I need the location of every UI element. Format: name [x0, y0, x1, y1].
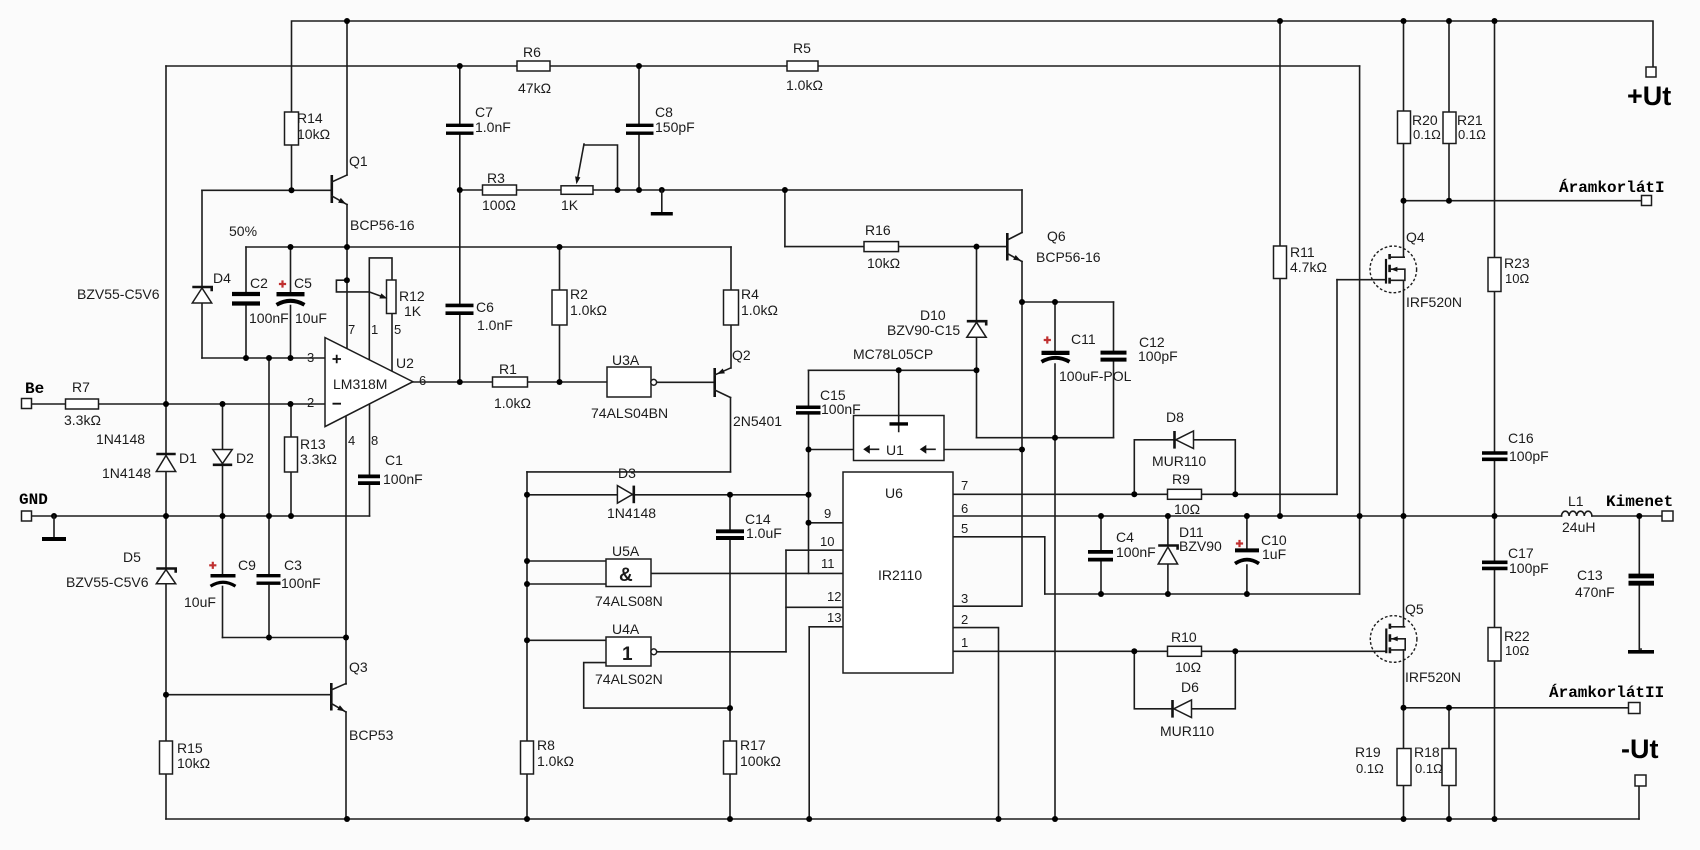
- svg-text:10kΩ: 10kΩ: [867, 255, 900, 271]
- junction: [457, 187, 463, 193]
- wire pot 1K loop: [584, 145, 618, 190]
- svg-text:0.1Ω: 0.1Ω: [1356, 761, 1384, 776]
- capacitor C16: [1482, 430, 1549, 464]
- junction: [344, 816, 350, 822]
- svg-text:3.3kΩ: 3.3kΩ: [300, 451, 337, 467]
- wire R13 column: [290, 404, 292, 516]
- svg-text:ÁramkorlátII: ÁramkorlátII: [1549, 683, 1664, 702]
- wire R2 column: [559, 247, 561, 382]
- junction: [1098, 591, 1104, 597]
- wire bottom rail: [166, 818, 1639, 820]
- wire Q6 emitter col: [953, 262, 1022, 607]
- svg-text:C4: C4: [1116, 529, 1134, 545]
- mosfet Q4: [1370, 229, 1462, 310]
- diode D2: [102, 450, 254, 482]
- wire Q5 source col: [1403, 650, 1405, 819]
- junction: [1052, 816, 1058, 822]
- svg-text:R3: R3: [487, 170, 505, 186]
- junction: [727, 816, 733, 822]
- svg-text:10kΩ: 10kΩ: [177, 755, 210, 771]
- junction: [1131, 648, 1137, 654]
- wire C11 C12 top line: [1022, 301, 1114, 303]
- svg-text:R14: R14: [297, 110, 323, 126]
- svg-text:D5: D5: [123, 549, 141, 565]
- svg-text:Q5: Q5: [1405, 601, 1424, 617]
- svg-text:100nF: 100nF: [821, 401, 861, 417]
- junction: [524, 816, 530, 822]
- wire C11 col: [1054, 302, 1056, 819]
- terminal AramkorlatII: [1629, 703, 1641, 714]
- svg-text:R8: R8: [537, 737, 555, 753]
- svg-text:7: 7: [348, 322, 355, 337]
- wire U1 in stub: [898, 370, 900, 422]
- wire U4A out line: [657, 651, 786, 653]
- svg-text:R10: R10: [1171, 629, 1197, 645]
- junction: [1401, 816, 1407, 822]
- svg-text:MUR110: MUR110: [1160, 723, 1214, 739]
- wire C13 col: [1638, 516, 1640, 651]
- svg-text:74ALS02N: 74ALS02N: [595, 671, 663, 687]
- junction: [1401, 198, 1407, 204]
- wire U4A in2 jog: [584, 663, 730, 709]
- wire C2 column: [245, 247, 247, 358]
- resistor R22: [1488, 628, 1530, 662]
- and gate U5A: [595, 543, 663, 609]
- svg-text:U3A: U3A: [612, 352, 640, 368]
- wire U5A in2: [527, 583, 606, 585]
- junction: [163, 401, 169, 407]
- svg-text:1N4148: 1N4148: [102, 465, 151, 481]
- junction: [1052, 435, 1058, 441]
- wire vs link line y437: [977, 437, 1114, 439]
- svg-text:100nF: 100nF: [249, 310, 289, 326]
- svg-text:100pF: 100pF: [1509, 560, 1549, 576]
- wire Q3 emitter col: [345, 712, 347, 819]
- wire left rail upper: [165, 66, 167, 404]
- resistor R8: [521, 737, 574, 774]
- capacitor C15: [796, 387, 861, 417]
- junction: [288, 355, 294, 361]
- wire Q1 emitter col pin7: [346, 205, 348, 349]
- wire R18 col: [1448, 708, 1450, 819]
- wire Q4 gate stub: [1337, 279, 1386, 281]
- junction: [1019, 299, 1025, 305]
- svg-text:0.1Ω: 0.1Ω: [1458, 127, 1486, 142]
- svg-text:D6: D6: [1181, 679, 1199, 695]
- wire Q4 source col: [1403, 280, 1405, 516]
- svg-text:IRF520N: IRF520N: [1405, 669, 1461, 685]
- terminal AramkorlatI: [1642, 196, 1652, 206]
- op-amp U2: [307, 322, 426, 448]
- nor gate U4A: [595, 621, 663, 687]
- junction: [51, 513, 57, 519]
- resistor R2: [552, 286, 607, 325]
- wire C9 bottom col: [222, 587, 224, 638]
- svg-text:8: 8: [371, 433, 378, 448]
- capacitor C4: [1088, 529, 1156, 560]
- svg-text:C3: C3: [284, 557, 302, 573]
- junction: [1277, 18, 1283, 24]
- junction: [1131, 491, 1137, 497]
- junction: [806, 447, 812, 453]
- wire U1 out line right: [944, 449, 1022, 451]
- svg-text:R20: R20: [1412, 112, 1438, 128]
- wire C7 C6 column: [459, 66, 461, 382]
- junction: [344, 244, 350, 250]
- junction: [659, 187, 665, 193]
- svg-text:R7: R7: [72, 379, 90, 395]
- junction: [806, 816, 812, 822]
- junction: [974, 367, 980, 373]
- wire Q4 gate riser: [1336, 280, 1338, 495]
- svg-text:R22: R22: [1504, 628, 1530, 644]
- svg-text:1.0uF: 1.0uF: [746, 525, 782, 541]
- wire Q3 base line: [166, 694, 331, 696]
- resistor R9: [1168, 471, 1202, 517]
- junction: [896, 367, 902, 373]
- wire VS line: [1045, 593, 1360, 595]
- svg-text:1K: 1K: [561, 197, 579, 213]
- junction: [1052, 299, 1058, 305]
- svg-text:10kΩ: 10kΩ: [297, 126, 330, 142]
- svg-text:100pF: 100pF: [1509, 448, 1549, 464]
- wire U5A out pin11: [651, 572, 843, 574]
- svg-text:5: 5: [961, 521, 968, 536]
- wire x527 divider col: [526, 472, 528, 819]
- svg-text:L1: L1: [1568, 493, 1584, 509]
- svg-text:9: 9: [824, 506, 831, 521]
- wire pin4 column: [345, 416, 347, 637]
- terminal -Ut: [1635, 775, 1646, 786]
- junction: [524, 558, 530, 564]
- wire D4 column top: [201, 190, 203, 287]
- capacitor C1: [358, 452, 423, 487]
- resistor R3: [482, 170, 517, 213]
- junction: [1232, 648, 1238, 654]
- svg-text:BZV90: BZV90: [1179, 538, 1222, 554]
- svg-text:D8: D8: [1166, 409, 1184, 425]
- junction: [636, 63, 642, 69]
- svg-text:12: 12: [827, 589, 841, 604]
- junction: [615, 187, 621, 193]
- wire D10 col bottom: [976, 337, 978, 437]
- svg-text:10Ω: 10Ω: [1174, 501, 1200, 517]
- wire left rail D1-GND: [165, 472, 167, 517]
- resistor R19: [1355, 744, 1411, 786]
- wire Q1 collector col: [346, 21, 348, 175]
- junction: [636, 187, 642, 193]
- svg-text:4.7kΩ: 4.7kΩ: [1290, 259, 1327, 275]
- wire D4 column bottom: [201, 303, 203, 358]
- wire LO line pin1: [953, 650, 1386, 652]
- potentiometer R12: [369, 280, 425, 319]
- svg-text:C17: C17: [1508, 545, 1534, 561]
- resistor R18: [1414, 744, 1456, 786]
- svg-text:13: 13: [827, 610, 841, 625]
- svg-text:U5A: U5A: [612, 543, 640, 559]
- svg-text:3.3kΩ: 3.3kΩ: [64, 412, 101, 428]
- resistor R13: [285, 436, 337, 472]
- svg-text:C1: C1: [385, 452, 403, 468]
- capacitor C13: [1575, 567, 1654, 600]
- junction: [1401, 18, 1407, 24]
- ground at pot: [651, 190, 673, 214]
- capacitor C8: [626, 104, 695, 135]
- wire pin13 stub: [809, 626, 843, 628]
- svg-text:D3: D3: [618, 465, 636, 481]
- junction: [163, 692, 169, 698]
- wire left rail D1 seg: [165, 404, 167, 454]
- wire pin5 jog: [953, 537, 1045, 594]
- svg-text:1uF: 1uF: [1262, 546, 1286, 562]
- junction: [1401, 705, 1407, 711]
- wire Q1 base line: [202, 189, 332, 191]
- wire pin10 stub: [786, 549, 843, 551]
- wire R12 wiper hook: [336, 280, 369, 292]
- wire left rail GND-D5: [165, 516, 167, 569]
- transistor Q6: [1007, 228, 1101, 265]
- svg-text:Q4: Q4: [1406, 229, 1425, 245]
- svg-text:R19: R19: [1355, 744, 1381, 760]
- svg-text:0.1Ω: 0.1Ω: [1413, 127, 1441, 142]
- junction: [806, 520, 812, 526]
- svg-text:Q6: Q6: [1047, 228, 1066, 244]
- svg-text:R9: R9: [1172, 471, 1190, 487]
- wire pin4 to Q3 collector: [345, 638, 347, 685]
- junction: [1244, 513, 1250, 519]
- ground at GND: [42, 516, 66, 539]
- resistor R11: [1274, 244, 1327, 279]
- junction: [288, 244, 294, 250]
- svg-text:100pF: 100pF: [1138, 348, 1178, 364]
- svg-text:R2: R2: [570, 286, 588, 302]
- wire Q5 drain col: [1403, 516, 1405, 627]
- junction: [782, 187, 788, 193]
- resistor R4: [724, 286, 778, 325]
- diode D8: [1152, 409, 1206, 469]
- ground at C13: [1628, 649, 1654, 652]
- svg-text:1.0kΩ: 1.0kΩ: [741, 302, 778, 318]
- svg-text:ÁramkorlátI: ÁramkorlátI: [1559, 178, 1665, 197]
- svg-text:U2: U2: [396, 355, 414, 371]
- svg-text:47kΩ: 47kΩ: [518, 80, 551, 96]
- wire C10 col: [1246, 516, 1248, 594]
- junction: [524, 637, 530, 643]
- capacitor C14: [716, 511, 782, 541]
- wire aramkorlat1 line: [1404, 200, 1642, 202]
- wire 50pct line y247: [246, 246, 731, 248]
- wire D6 loop: [1134, 651, 1235, 709]
- terminal GND: [22, 511, 32, 521]
- junction: [1492, 513, 1498, 519]
- svg-text:R12: R12: [399, 288, 425, 304]
- wire C3 column: [268, 358, 270, 638]
- capacitor C2: [232, 275, 289, 326]
- wire C16 C17 col: [1494, 461, 1496, 819]
- capacitor C17: [1482, 545, 1549, 576]
- gate driver U6: [843, 472, 953, 673]
- diode D3: [607, 465, 656, 521]
- svg-text:R18: R18: [1414, 744, 1440, 760]
- wire pin9 stub: [809, 522, 844, 524]
- svg-text:R6: R6: [523, 44, 541, 60]
- wire aramkorlat2 line: [1404, 707, 1629, 709]
- svg-text:C8: C8: [655, 104, 673, 120]
- svg-text:C9: C9: [238, 557, 256, 573]
- wire D3 line: [527, 494, 809, 496]
- svg-text:C13: C13: [1577, 567, 1603, 583]
- junction: [1098, 513, 1104, 519]
- wire C14 top col: [729, 495, 731, 530]
- wire C5 column: [290, 247, 292, 358]
- svg-text:R5: R5: [793, 40, 811, 56]
- svg-text:D2: D2: [236, 450, 254, 466]
- svg-text:1.0kΩ: 1.0kΩ: [786, 77, 823, 93]
- resistor R10: [1168, 629, 1202, 675]
- capacitor C6: [446, 299, 513, 333]
- svg-text:MUR110: MUR110: [1152, 453, 1206, 469]
- junction: [1446, 198, 1452, 204]
- svg-text:+Ut: +Ut: [1627, 81, 1671, 111]
- capacitor C5: [277, 275, 327, 326]
- resistor R15: [160, 740, 211, 774]
- wire top +Ut rail: [292, 21, 1654, 112]
- svg-text:BZV90-C15: BZV90-C15: [887, 322, 960, 338]
- wire Q2 collector col: [730, 398, 732, 472]
- potentiometer 1K: [561, 144, 593, 213]
- junction: [1165, 513, 1171, 519]
- svg-text:10uF: 10uF: [184, 594, 216, 610]
- resistor R14: [285, 110, 331, 145]
- svg-text:10: 10: [820, 534, 834, 549]
- junction: [163, 513, 169, 519]
- junction: [1232, 491, 1238, 497]
- svg-text:R16: R16: [865, 222, 891, 238]
- junction: [1492, 816, 1498, 822]
- svg-text:1.0kΩ: 1.0kΩ: [537, 753, 574, 769]
- svg-text:MC78L05CP: MC78L05CP: [853, 346, 933, 362]
- junction: [806, 492, 812, 498]
- wire D11 col: [1167, 516, 1169, 594]
- junction: [343, 635, 349, 641]
- junction: [727, 492, 733, 498]
- wire R16 line: [785, 246, 1007, 248]
- wire pin8 C1 column: [369, 405, 371, 517]
- svg-text:R4: R4: [741, 286, 759, 302]
- wire D8 loop: [1134, 440, 1235, 495]
- wire U5A in1: [527, 560, 606, 562]
- svg-text:IR2110: IR2110: [878, 567, 922, 583]
- svg-text:Q3: Q3: [349, 659, 368, 675]
- capacitor C3: [257, 557, 321, 591]
- junction: [266, 355, 272, 361]
- svg-text:BCP56-16: BCP56-16: [1036, 249, 1101, 265]
- svg-text:BZV55-C5V6: BZV55-C5V6: [77, 286, 160, 302]
- svg-text:1K: 1K: [404, 303, 422, 319]
- svg-text:R13: R13: [300, 436, 326, 452]
- zener D5: [66, 549, 176, 590]
- junction: [1446, 816, 1452, 822]
- junction: [289, 187, 295, 193]
- junction: [1492, 18, 1498, 24]
- transistor Q2: [715, 347, 783, 429]
- transistor Q3: [331, 659, 393, 743]
- resistor R17: [724, 737, 781, 774]
- svg-text:1N4148: 1N4148: [96, 431, 145, 447]
- capacitor C10: [1235, 532, 1287, 564]
- wire Q6 collector col: [1021, 190, 1023, 233]
- wire R14 bottom: [291, 145, 293, 190]
- junction: [1636, 513, 1642, 519]
- wire R21 col: [1448, 21, 1450, 201]
- resistor R5: [786, 40, 823, 93]
- junction: [243, 355, 249, 361]
- resistor R16: [864, 222, 900, 271]
- wire R11 col: [1279, 21, 1281, 516]
- svg-text:10Ω: 10Ω: [1505, 271, 1529, 286]
- capacitor C9: [184, 557, 256, 610]
- svg-text:D1: D1: [179, 450, 197, 466]
- terminal Be: [22, 399, 32, 409]
- wire GND line: [32, 515, 370, 517]
- wire VS right link: [1359, 516, 1361, 594]
- svg-text:2: 2: [961, 612, 968, 627]
- svg-text:U1: U1: [886, 442, 904, 458]
- svg-text:3: 3: [307, 350, 314, 365]
- wire C12 col: [1113, 302, 1115, 438]
- junction: [266, 635, 272, 641]
- resistor R7: [64, 379, 101, 428]
- svg-text:&: &: [619, 565, 633, 586]
- wire pin10 pin12 col: [785, 550, 787, 652]
- junction: [1446, 705, 1452, 711]
- svg-text:100kΩ: 100kΩ: [740, 753, 781, 769]
- junction: [457, 63, 463, 69]
- wire C14 bottom R17 col: [729, 540, 731, 819]
- junction: [288, 401, 294, 407]
- wire opamp out line: [413, 381, 607, 383]
- inverter U3A: [591, 352, 668, 421]
- inductor L1: [1562, 493, 1596, 535]
- svg-text:BZV55-C5V6: BZV55-C5V6: [66, 574, 149, 590]
- svg-text:7: 7: [961, 478, 968, 493]
- wire R4 column: [730, 247, 732, 368]
- svg-text:Q1: Q1: [349, 153, 368, 169]
- svg-text:100nF: 100nF: [281, 575, 321, 591]
- svg-text:1.0nF: 1.0nF: [477, 317, 513, 333]
- svg-text:R15: R15: [177, 740, 203, 756]
- junction: [557, 244, 563, 250]
- junction: [457, 379, 463, 385]
- wire Q2 feedback line: [527, 471, 731, 473]
- junction: [1357, 513, 1363, 519]
- capacitor C12: [1101, 334, 1178, 364]
- svg-text:C6: C6: [476, 299, 494, 315]
- svg-text:1: 1: [961, 635, 968, 650]
- wire U4A in1: [527, 639, 606, 641]
- zener D11: [1158, 524, 1222, 564]
- resistor R1: [493, 361, 531, 411]
- junction: [974, 244, 980, 250]
- svg-text:0.1Ω: 0.1Ω: [1415, 761, 1443, 776]
- svg-text:74ALS08N: 74ALS08N: [595, 593, 663, 609]
- svg-text:R1: R1: [499, 361, 517, 377]
- svg-text:D4: D4: [213, 270, 231, 286]
- wire pin2 col: [953, 628, 999, 819]
- svg-text:10Ω: 10Ω: [1175, 659, 1201, 675]
- svg-text:U6: U6: [885, 485, 903, 501]
- svg-text:1N4148: 1N4148: [607, 505, 656, 521]
